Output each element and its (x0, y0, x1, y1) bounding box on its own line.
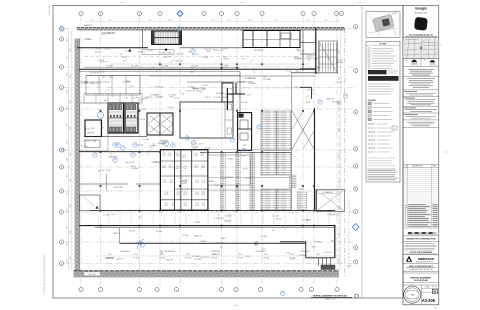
svg-text:2440 TYP: 2440 TYP (223, 59, 230, 61)
svg-text:1: 1 (311, 289, 312, 291)
svg-text:24'-0": 24'-0" (211, 20, 215, 22)
svg-text:1: 1 (301, 289, 302, 291)
parking stalls column A (261, 111, 291, 150)
core wall v1 (173, 150, 175, 211)
svg-text:SLOPE 2%: SLOPE 2% (100, 61, 109, 63)
svg-text:A3-EXT: A3-EXT (84, 24, 92, 27)
core wall h1 (160, 160, 208, 162)
svg-text:8400: 8400 (339, 206, 341, 209)
svg-text:28'-6": 28'-6" (66, 123, 68, 127)
svg-text:1: 1 (237, 13, 238, 15)
svg-text:8400: 8400 (339, 154, 341, 157)
svg-text:12: 12 (405, 204, 407, 206)
svg-text:1: 1 (221, 13, 222, 15)
svg-text:8400: 8400 (339, 258, 341, 261)
svg-text:PARTIAL BASEMENT FLOOR PLAN: PARTIAL BASEMENT FLOOR PLAN (313, 294, 347, 297)
svg-text:TYP 2440: TYP 2440 (133, 258, 140, 260)
svg-text:28'-6": 28'-6" (66, 140, 68, 144)
svg-text:11: 11 (405, 206, 407, 208)
svg-text:CL 2440: CL 2440 (194, 222, 200, 224)
svg-text:STOR: STOR (122, 57, 127, 59)
svg-text:CL 2440: CL 2440 (81, 146, 87, 148)
svg-text:8400: 8400 (70, 178, 72, 181)
margin tick bottom (234, 305, 238, 307)
svg-text:1: 1 (236, 289, 237, 291)
svg-text:12'-6": 12'-6" (111, 214, 116, 216)
face left (412, 60, 417, 65)
svg-text:U/S 2600: U/S 2600 (176, 53, 183, 55)
tb divider y66.5 (403, 66, 439, 68)
svg-text:28'-6": 28'-6" (66, 89, 68, 93)
svg-text:45min DOOR: 45min DOOR (125, 162, 135, 164)
parking aisle lines (209, 177, 292, 179)
legend column divider (361, 6, 363, 299)
svg-text:SC: SC (435, 287, 437, 289)
grid bubbles left column (59, 26, 63, 30)
band label (84, 272, 100, 276)
partition x106 (105, 174, 107, 190)
elevator block E2 (238, 113, 252, 151)
svg-text:TYP 2440: TYP 2440 (185, 258, 192, 260)
svg-text:6" CONC. CURB: 6" CONC. CURB (214, 97, 228, 99)
top rooms block (243, 31, 300, 48)
svg-text:8400: 8400 (70, 100, 72, 103)
svg-text:10: 10 (405, 209, 407, 211)
south wall gray band (74, 271, 340, 277)
corridor wall y151.7 (79, 151, 160, 153)
svg-text:1: 1 (81, 289, 82, 291)
svg-text:1: 1 (100, 13, 101, 15)
svg-text:B1 CORR.: B1 CORR. (191, 65, 199, 67)
legend line samples (368, 123, 375, 125)
svg-text:SLOPE 2%: SLOPE 2% (330, 214, 339, 216)
graphic scale bar (408, 232, 412, 233)
margin tick right (444, 151, 448, 153)
svg-text:CL 2440: CL 2440 (260, 236, 266, 238)
dark room corner x222 (222, 83, 233, 102)
svg-text:2440 TYP: 2440 TYP (327, 98, 335, 100)
disclaimer paragraph (405, 243, 435, 245)
svg-text:B120: B120 (243, 145, 247, 147)
svg-text:P1 LEVEL: P1 LEVEL (158, 143, 165, 145)
corridor wall long y67 (84, 67, 240, 69)
svg-text:28'-6": 28'-6" (66, 106, 68, 110)
svg-text:P1 LEVEL: P1 LEVEL (191, 147, 199, 149)
svg-text:2440 TYP: 2440 TYP (297, 50, 305, 52)
parking stalls col A2 (261, 152, 291, 175)
svg-text:SLOPE 2%: SLOPE 2% (322, 265, 331, 267)
svg-text:12'-6": 12'-6" (220, 218, 225, 220)
svg-text:PLOTTED: 2021-07-14 10:22 AM: PLOTTED: 2021-07-14 10:22 AM K:\PROJ\19-… (43, 255, 46, 295)
svg-text:28'-6": 28'-6" (66, 72, 68, 76)
ramp X box (316, 190, 344, 212)
svg-text:12'-6": 12'-6" (134, 254, 139, 256)
dimension line bottom y256 (96, 255, 340, 257)
svg-text:B1 CORR.: B1 CORR. (161, 65, 169, 67)
svg-text:8400: 8400 (70, 256, 72, 259)
svg-text:P1 LEVEL: P1 LEVEL (81, 82, 89, 84)
svg-text:8400: 8400 (339, 50, 341, 53)
consultant text block 2 (407, 78, 435, 80)
svg-text:2440 TYP: 2440 TYP (175, 61, 183, 63)
svg-text:STOR. B108: STOR. B108 (113, 187, 122, 189)
svg-text:TYP 2440: TYP 2440 (315, 258, 322, 260)
svg-text:12'-6": 12'-6" (108, 254, 113, 256)
svg-text:12'-6": 12'-6" (316, 254, 321, 256)
svg-text:CL 2440: CL 2440 (192, 256, 198, 258)
svg-text:B101: B101 (312, 247, 316, 249)
svg-text:28'-6": 28'-6" (66, 225, 68, 229)
svg-text:B105: B105 (197, 91, 201, 93)
thick room B112 (85, 120, 102, 137)
svg-text:1: 1 (303, 13, 304, 15)
svg-text:CL 2440: CL 2440 (337, 59, 343, 61)
east room y87 (300, 86, 312, 88)
key plan box (366, 12, 400, 38)
svg-text:P1 LEVEL: P1 LEVEL (125, 51, 132, 53)
wall x240 (239, 71, 241, 112)
svg-text:CL 2440: CL 2440 (346, 266, 352, 268)
svg-text:28'-6": 28'-6" (66, 242, 68, 246)
sheet border frame (53, 6, 403, 299)
svg-text:P1 LEVEL: P1 LEVEL (299, 255, 307, 257)
left dim column (68, 30, 70, 270)
svg-text:P1 LEVEL: P1 LEVEL (248, 83, 256, 85)
svg-text:1: 1 (204, 13, 205, 15)
notes box (366, 41, 400, 182)
note black bar 2 (368, 76, 399, 81)
svg-text:1: 1 (81, 13, 82, 15)
grid bubbles top row (79, 11, 83, 15)
svg-text:1: 1 (221, 289, 222, 291)
svg-text:SLOPE 2%: SLOPE 2% (133, 98, 142, 100)
revision table empty rows (403, 168, 439, 170)
revision table columns (406, 164, 408, 228)
stair ST-1 (152, 31, 182, 45)
svg-text:150 DIA: 150 DIA (306, 88, 313, 91)
svg-text:2440 TYP: 2440 TYP (87, 133, 95, 135)
wall y82 (187, 81, 245, 83)
svg-text:1: 1 (160, 13, 161, 15)
svg-text:FLOOR PLAN: FLOOR PLAN (414, 279, 428, 282)
consultant box 5 (404, 107, 416, 109)
svg-text:P1 LEVEL: P1 LEVEL (244, 78, 252, 80)
dashed line y75 right (242, 87, 312, 89)
svg-text:1:12 RAMP: 1:12 RAMP (262, 78, 272, 81)
parking stall strips (221, 152, 226, 210)
column grid squares (100, 110, 102, 112)
dim line y64 with diamonds (110, 63, 310, 65)
core fixtures (163, 153, 165, 156)
svg-text:R 1500: R 1500 (160, 141, 166, 143)
svg-text:1: 1 (336, 13, 337, 15)
lower right room (280, 241, 306, 243)
svg-text:1.5HR F.R.S.: 1.5HR F.R.S. (108, 157, 118, 159)
svg-text:SLOPE 2%: SLOPE 2% (90, 73, 99, 75)
svg-text:A3-305: A3-305 (422, 298, 436, 303)
svg-text:24'-0": 24'-0" (306, 20, 310, 22)
corridor wall thick y69 (79, 68, 316, 70)
grid bubbles bottom row (79, 287, 83, 291)
ramp top hatch (319, 41, 338, 73)
svg-text:28'-6": 28'-6" (66, 174, 68, 178)
sheet info cells (421, 285, 423, 304)
svg-text:6" CONC. CURB: 6" CONC. CURB (83, 141, 97, 143)
svg-text:150 DIA: 150 DIA (156, 230, 163, 233)
svg-text:2440 TYP: 2440 TYP (205, 49, 212, 51)
property line dashed right (344, 28, 346, 277)
svg-text:STOR: STOR (203, 85, 208, 87)
stamp seal (404, 286, 421, 303)
svg-text:8400: 8400 (70, 48, 72, 51)
stall strip right lower (297, 192, 307, 210)
svg-text:1: 1 (176, 289, 177, 291)
svg-text:B1 CORR.: B1 CORR. (106, 65, 114, 67)
legend bottom dense block (368, 168, 396, 170)
corridor wall y71 (79, 70, 240, 72)
column diamonds on grid (128, 49, 131, 52)
east rooms x300-316 (302, 31, 304, 72)
svg-text:8400: 8400 (70, 204, 72, 207)
svg-text:SLOPE 2%: SLOPE 2% (154, 86, 163, 88)
loading steps (318, 258, 320, 266)
note rows 2 (368, 83, 390, 85)
svg-text:SLOPE 2%: SLOPE 2% (324, 252, 333, 254)
big room M1 (180, 102, 233, 138)
wall y184 (79, 183, 128, 185)
svg-text:28'-6": 28'-6" (66, 55, 68, 59)
svg-text:12'-6": 12'-6" (85, 39, 90, 41)
svg-text:8400: 8400 (70, 74, 72, 77)
wall y136.3 below washrooms (84, 135, 147, 137)
svg-text:1: 1 (157, 289, 158, 291)
small rooms upper left (86, 75, 240, 77)
app icon black (414, 17, 428, 31)
svg-text:B101: B101 (222, 238, 226, 240)
parking stalls lower dense (261, 189, 291, 210)
svg-text:PARKING: PARKING (206, 180, 214, 183)
svg-text:12'-6": 12'-6" (207, 97, 211, 99)
svg-text:CL 2440: CL 2440 (225, 216, 231, 218)
room outline x208-250 (208, 155, 250, 185)
svg-text:R 1500: R 1500 (214, 218, 220, 220)
east lower wall vertical (334, 226, 336, 258)
svg-text:U/S 2600: U/S 2600 (307, 56, 314, 58)
svg-text:R 1500: R 1500 (276, 219, 282, 221)
svg-text:B101: B101 (331, 241, 335, 243)
svg-text:CL 2440: CL 2440 (272, 216, 278, 218)
svg-text:2440 TYP: 2440 TYP (224, 221, 232, 223)
svg-text:1: 1 (100, 289, 101, 291)
svg-text:PARTIAL BASEMENT: PARTIAL BASEMENT (410, 276, 432, 279)
svg-text:12'-6": 12'-6" (290, 254, 295, 256)
svg-text:12'-6": 12'-6" (238, 254, 243, 256)
margin dashes below titleblock (434, 306, 437, 308)
svg-text:STOR: STOR (129, 86, 134, 88)
svg-text:B101: B101 (317, 67, 321, 69)
svg-text:adamson: adamson (418, 257, 434, 261)
svg-text:NOTES: NOTES (380, 43, 388, 45)
north wall gray band (77, 27, 345, 30)
svg-text:1: 1 (139, 289, 140, 291)
interior wall y243 (120, 242, 306, 244)
legend box1 (392, 126, 397, 130)
ramp diagonals (292, 110, 315, 150)
svg-text:24'-0": 24'-0" (324, 20, 328, 22)
svg-text:TYP 2440: TYP 2440 (237, 258, 244, 260)
svg-text:28'-6": 28'-6" (66, 208, 68, 212)
svg-text:2440 TYP: 2440 TYP (106, 257, 114, 259)
svg-text:150 DIA: 150 DIA (129, 230, 136, 233)
revision clouds blue (178, 11, 182, 15)
svg-text:24'-0": 24'-0" (90, 20, 94, 22)
svg-text:B1 CORR.: B1 CORR. (131, 65, 139, 67)
washroom W2 (125, 103, 138, 133)
sheet number 42 box (432, 289, 437, 293)
corner wall x227 (226, 88, 228, 110)
svg-text:P1 LEVEL: P1 LEVEL (332, 102, 340, 104)
svg-text:150 DIA: 150 DIA (336, 61, 343, 64)
core wall h3 (174, 188, 208, 190)
svg-text:1:12 RAMP: 1:12 RAMP (153, 161, 163, 164)
svg-text:150 DIA: 150 DIA (216, 242, 223, 245)
svg-text:B101: B101 (246, 256, 250, 258)
key plan streets (368, 28, 398, 33)
svg-text:24'-0": 24'-0" (248, 20, 252, 22)
svg-text:150 DIA: 150 DIA (142, 138, 149, 141)
svg-text:STOR: STOR (243, 168, 248, 170)
core wall v3 (191, 150, 193, 211)
svg-text:B116: B116 (182, 183, 186, 185)
svg-text:CL 2440: CL 2440 (202, 57, 208, 59)
parking field wall y152 (200, 151, 291, 153)
svg-text:STOR: STOR (241, 156, 246, 158)
note black bar 1 (368, 70, 387, 74)
svg-text:1:12 RAMP: 1:12 RAMP (150, 93, 160, 96)
core wall v2 (180, 150, 182, 211)
room row y93-103 (84, 94, 142, 104)
right dim column (340, 30, 342, 270)
svg-text:1: 1 (337, 289, 338, 291)
svg-text:STOR: STOR (337, 82, 342, 84)
consultant box 7 (407, 121, 435, 123)
dashed equipment box (142, 50, 174, 55)
svg-text:28'-6": 28'-6" (66, 157, 68, 161)
svg-text:28'-6": 28'-6" (66, 38, 68, 42)
svg-text:1: 1 (139, 13, 140, 15)
svg-text:150 DIA: 150 DIA (204, 146, 211, 149)
adamson logo (406, 256, 412, 262)
key plan leader (392, 13, 397, 15)
blue swirl bottom left (137, 239, 145, 249)
svg-text:TYP: TYP (111, 96, 114, 98)
svg-text:TYP 2440: TYP 2440 (211, 258, 218, 260)
svg-text:B1 CORR.: B1 CORR. (221, 65, 229, 67)
svg-text:6" CONC. CURB: 6" CONC. CURB (98, 170, 112, 172)
svg-text:2440 TYP: 2440 TYP (164, 57, 172, 59)
svg-text:28'-6": 28'-6" (66, 191, 68, 195)
svg-text:STOR: STOR (95, 52, 100, 54)
svg-text:SLOPE 2%: SLOPE 2% (200, 257, 209, 259)
svg-text:B101: B101 (109, 76, 113, 78)
svg-text:EXIT: EXIT (125, 97, 129, 99)
wall room110 bottom (77, 47, 148, 49)
grid line stems horizontal (64, 28, 354, 30)
svg-text:R 1500: R 1500 (99, 72, 105, 74)
svg-text:8400: 8400 (339, 128, 341, 131)
svg-text:12'-6": 12'-6" (264, 254, 269, 256)
consultant box 3 (404, 91, 417, 93)
map streets (404, 42, 438, 44)
empty tall box (403, 163, 439, 165)
svg-text:TYP 2440: TYP 2440 (159, 258, 166, 260)
issued for construction box (403, 235, 439, 237)
svg-text:19-305: 19-305 (425, 287, 430, 289)
svg-text:2440 TYP: 2440 TYP (113, 233, 121, 235)
core wall h2 (160, 175, 208, 177)
svg-text:P1 LEVEL: P1 LEVEL (123, 82, 131, 84)
svg-text:R 1500: R 1500 (227, 159, 233, 161)
svg-text:24'-0": 24'-0" (148, 20, 152, 22)
door swings (152, 67, 157, 72)
room bottom-left (79, 195, 100, 211)
svg-text:2440 TYP: 2440 TYP (226, 177, 234, 179)
grid line stems vertical (80, 16, 82, 288)
svg-text:PM: PM (406, 60, 408, 62)
parking row ticks y212-225 (97, 214, 99, 225)
svg-text:150 DIA: 150 DIA (132, 167, 139, 170)
dashed line x339 (338, 100, 340, 270)
svg-text:EXIT: EXIT (262, 249, 266, 251)
elevator bank EL1 (147, 113, 173, 135)
svg-text:1: 1 (262, 13, 263, 15)
svg-text:8400: 8400 (70, 126, 72, 129)
title block outer frame (403, 6, 439, 305)
ramp strip walls (291, 74, 293, 211)
grid bubbles right column (354, 25, 358, 29)
faces row divider (403, 57, 439, 59)
svg-text:DO NOT SCALE DRAWINGS: DO NOT SCALE DRAWINGS (410, 251, 433, 254)
svg-text:U/S 2600: U/S 2600 (240, 102, 247, 104)
svg-text:B112: B112 (91, 128, 95, 130)
svg-text:SLOPE 2%: SLOPE 2% (212, 254, 221, 256)
svg-text:ISSUED FOR CONSTRUCTION: ISSUED FOR CONSTRUCTION (406, 239, 435, 241)
svg-text:SLOPE 2%: SLOPE 2% (254, 50, 263, 52)
revision filled rows (403, 205, 439, 207)
svg-text:8400: 8400 (339, 232, 341, 235)
svg-text:150 DIA: 150 DIA (182, 234, 189, 237)
east wall vertical x316 (315, 28, 317, 74)
svg-text:2440 TYP: 2440 TYP (194, 235, 202, 237)
consultant box 4 (404, 97, 415, 99)
svg-text:1: 1 (260, 289, 261, 291)
svg-text:2440 TYP: 2440 TYP (116, 259, 124, 261)
west wall gray band (75, 39, 80, 274)
wall y74 segment (291, 72, 338, 74)
legend symbol rows (368, 102, 372, 105)
consultant box 6 (404, 114, 418, 116)
long line y76 (150, 75, 316, 77)
svg-text:1: 1 (314, 13, 315, 15)
svg-text:12'-6": 12'-6" (85, 128, 90, 130)
svg-text:1:12 RAMP: 1:12 RAMP (302, 218, 312, 221)
svg-text:LEGEND: LEGEND (368, 100, 376, 102)
margin ticks top (120, 2, 124, 4)
map dot (420, 47, 422, 49)
washroom W1 (108, 103, 124, 133)
svg-text:CL 2440: CL 2440 (217, 50, 223, 52)
svg-text:BUILDINGS+GNT: BUILDINGS+GNT (414, 13, 427, 15)
